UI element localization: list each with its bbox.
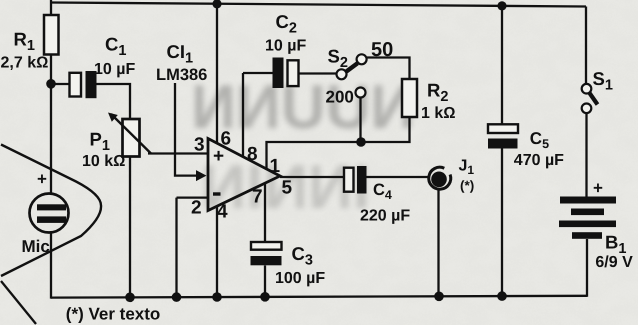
svg-text:(*) Ver texto: (*) Ver texto — [66, 305, 160, 324]
svg-text:4: 4 — [217, 202, 228, 223]
svg-text:2: 2 — [191, 198, 202, 219]
svg-text:1: 1 — [270, 156, 281, 177]
svg-text:+: + — [37, 170, 47, 189]
svg-text:5: 5 — [282, 178, 293, 199]
svg-text:(*): (*) — [460, 178, 474, 193]
svg-text:LM386: LM386 — [156, 66, 207, 84]
svg-text:+: + — [213, 146, 224, 167]
svg-text:3: 3 — [194, 134, 205, 155]
svg-text:10 kΩ: 10 kΩ — [82, 153, 125, 170]
svg-text:200: 200 — [326, 87, 354, 106]
svg-text:470 µF: 470 µF — [514, 152, 564, 169]
svg-text:7: 7 — [252, 187, 263, 208]
svg-text:1 kΩ: 1 kΩ — [421, 105, 456, 122]
svg-text:Mic: Mic — [22, 237, 50, 256]
svg-text:50: 50 — [371, 39, 393, 61]
svg-text:10 µF: 10 µF — [265, 37, 306, 54]
svg-text:100 µF: 100 µF — [275, 270, 325, 287]
svg-text:10 µF: 10 µF — [94, 61, 135, 78]
svg-text:2,7 kΩ: 2,7 kΩ — [1, 55, 49, 72]
svg-text:6/9 V: 6/9 V — [595, 254, 633, 271]
svg-text:220 µF: 220 µF — [360, 208, 410, 225]
svg-text:+: + — [593, 178, 603, 197]
svg-text:8: 8 — [247, 144, 258, 165]
